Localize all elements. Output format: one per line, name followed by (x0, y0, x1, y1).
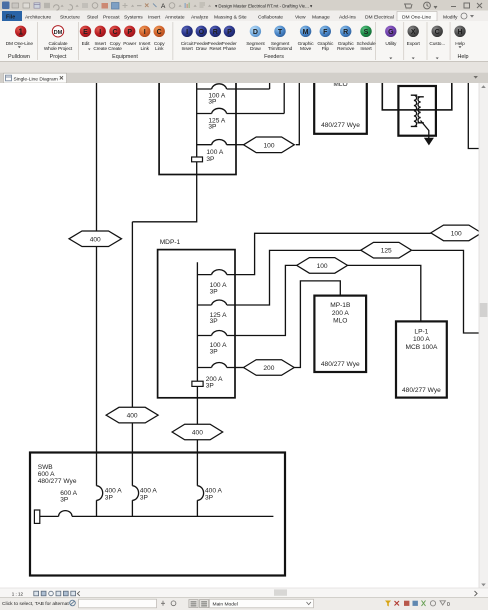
svg-text:G: G (388, 29, 394, 36)
svg-text:Move: Move (300, 46, 312, 52)
equipment box outer (top right, cut) (382, 78, 452, 110)
svg-text:Copy: Copy (110, 41, 121, 47)
svg-text:C: C (157, 29, 162, 36)
wire MDP-1 b1 to hexagon 100 top right (235, 233, 431, 274)
ribbon body (0, 21, 488, 62)
svg-text:DM One-Line: DM One-Line (402, 14, 431, 20)
svg-text:MCB 100A: MCB 100A (405, 344, 437, 351)
feeder hexagon 100 (H6) (431, 225, 482, 241)
transformer coils (411, 95, 417, 126)
svg-text:M: M (303, 29, 309, 36)
svg-text:Insert: Insert (95, 41, 107, 47)
svg-text:Main Model: Main Model (213, 601, 238, 607)
svg-text:I: I (186, 29, 188, 36)
labels SWB (38, 464, 223, 503)
labels MP-1B (0, 0, 1, 1)
svg-text:Massing & Site: Massing & Site (214, 14, 247, 20)
svg-text:3P: 3P (205, 495, 214, 502)
svg-text:Segment: Segment (246, 41, 265, 47)
svg-text:Reset: Reset (209, 46, 222, 52)
wire MDP-1 b2 to hexagon 125 (235, 250, 361, 305)
svg-text:Insert: Insert (360, 46, 372, 52)
panelboard MP-1B (314, 296, 366, 372)
breaker 200A 3P (MDP-1 b4) (197, 367, 235, 369)
svg-text:Steel: Steel (87, 14, 98, 20)
feeder hexagon 125 (H7) (361, 242, 412, 258)
bottom: view control bar + horizontal scrollbar (0, 588, 488, 597)
ribbon tab row (0, 11, 488, 22)
svg-text:P: P (227, 29, 232, 36)
svg-text:1 : 12: 1 : 12 (12, 592, 24, 597)
svg-text:I: I (99, 29, 101, 36)
wire: top panel bus down, over to SWB riser (132, 83, 196, 516)
breaker 100A 3P (MDP-1 b3) (197, 335, 235, 337)
breaker 100A 3P (top panel b1) (197, 88, 236, 90)
svg-text:100: 100 (451, 230, 462, 237)
utility service rectangle (34, 510, 39, 523)
panelboard LP-1 (396, 321, 447, 397)
svg-text:Trim/Extend: Trim/Extend (268, 46, 293, 52)
feeder hexagon 100 (H8) (244, 137, 295, 153)
svg-text:F: F (323, 29, 328, 36)
svg-text:Help: Help (455, 41, 465, 47)
svg-text:Analyze: Analyze (191, 14, 209, 20)
svg-text:Feeder: Feeder (208, 41, 223, 47)
svg-text:C: C (435, 29, 440, 36)
svg-text:Draw: Draw (196, 46, 207, 52)
svg-text:3P: 3P (60, 497, 69, 504)
svg-text:3P: 3P (105, 495, 114, 502)
svg-text:3P: 3P (210, 289, 219, 296)
svg-text:H: H (457, 29, 462, 36)
equipment box MLO (top, cut) (314, 78, 367, 134)
svg-text:Architecture: Architecture (25, 14, 51, 20)
breaker 600A 3P (SWB main) (59, 511, 72, 517)
svg-text:3P: 3P (208, 124, 217, 131)
svg-text:O: O (199, 29, 205, 36)
svg-text:Insert: Insert (181, 46, 193, 52)
feeder hexagon 200 (H4) (244, 360, 295, 376)
view tab bar (0, 73, 488, 83)
wire top right corner to edge (468, 83, 479, 149)
svg-text:3P: 3P (208, 99, 217, 106)
status bar (0, 597, 488, 610)
svg-text:Create: Create (108, 46, 122, 52)
svg-text:Circuit: Circuit (181, 41, 195, 47)
svg-text:Remove: Remove (337, 46, 355, 52)
svg-text:Add-Ins: Add-Ins (339, 14, 356, 20)
svg-text:I: I (144, 29, 146, 36)
breaker 100A 3P (top panel b3) (197, 144, 236, 146)
svg-text:Systems: Systems (124, 14, 143, 20)
panel top (unnamed, cut at top) (159, 78, 236, 175)
breaker labels: MDP-1 (206, 282, 227, 390)
svg-text:Graphic: Graphic (298, 41, 315, 47)
svg-text:D: D (253, 29, 258, 36)
svg-text:MP-1B: MP-1B (330, 302, 351, 309)
breaker 100A 3P (MDP-1 b1) (197, 274, 235, 276)
wire from hexagon 100 up (296, 83, 300, 145)
svg-text:Link: Link (141, 46, 150, 52)
feeder hexagon 400 (H3) (172, 424, 223, 440)
svg-text:Custo...: Custo... (429, 41, 445, 47)
svg-text:Export: Export (407, 41, 421, 47)
svg-text:400: 400 (192, 430, 203, 437)
title bar (0, 0, 488, 11)
svg-text:E: E (83, 29, 88, 36)
panel labels (8, 54, 468, 60)
svg-text:Phase: Phase (223, 46, 236, 52)
wire hexagon 125 to right edge (412, 250, 479, 333)
svg-text:X: X (411, 29, 416, 36)
right status icons (385, 601, 450, 608)
wire MDP-1 b4 to hexagon 200 (235, 367, 244, 369)
transformer secondary lead with arrow (421, 121, 429, 139)
main lug symbol (MDP-1) (192, 381, 203, 386)
svg-text:3P: 3P (140, 495, 149, 502)
svg-text:Insert: Insert (139, 41, 151, 47)
svg-text:T: T (278, 29, 283, 36)
svg-text:Calculate: Calculate (49, 41, 68, 47)
feeder hexagon 400 (H1) (69, 231, 122, 247)
svg-text:A: A (161, 3, 166, 10)
breaker 400A 3P (SWB d2) (132, 486, 138, 501)
wire b1 to riser up (236, 83, 270, 89)
svg-text:Project: Project (50, 54, 67, 60)
wire b3 to feeder hexagon (236, 144, 244, 146)
svg-text:480/277 Wye: 480/277 Wye (321, 122, 360, 129)
svg-text:Segment: Segment (271, 41, 290, 47)
wire b2 to riser up (236, 83, 284, 114)
wire MDP-1 b3 to hexagon 100 (235, 265, 297, 335)
feeder hexagon 400 (H2) (106, 407, 158, 423)
load arrow (transformer) (424, 138, 434, 146)
switchboard SWB (30, 453, 285, 576)
svg-text:Annotate: Annotate (165, 14, 185, 20)
svg-text:480/277 Wye: 480/277 Wye (38, 478, 77, 485)
svg-text:Edit: Edit (82, 41, 91, 47)
svg-text:C: C (112, 29, 117, 36)
svg-text:Graphic: Graphic (338, 41, 355, 47)
svg-text:S: S (364, 29, 369, 36)
svg-text:Create: Create (93, 46, 107, 52)
svg-text:Manage: Manage (312, 14, 330, 20)
svg-text:Graphic: Graphic (317, 41, 334, 47)
svg-text:Flip: Flip (322, 46, 330, 52)
SWB bus wire (40, 515, 274, 517)
svg-text:Single-Line Diagram: Single-Line Diagram (14, 76, 58, 82)
svg-text:Whole Project: Whole Project (44, 46, 73, 52)
svg-text:400: 400 (127, 413, 138, 420)
svg-text:Feeder: Feeder (222, 41, 237, 47)
svg-text:Modify: Modify (443, 14, 458, 20)
svg-text:3P: 3P (210, 318, 219, 325)
svg-text:Draw: Draw (250, 46, 261, 52)
svg-text:P: P (127, 29, 132, 36)
svg-text:▾ Design Master Electrical RT.: ▾ Design Master Electrical RT.rvt - Draf… (215, 3, 312, 8)
svg-text:400: 400 (90, 236, 101, 243)
svg-text:R: R (213, 29, 218, 36)
svg-text:480/277 Wye: 480/277 Wye (321, 361, 360, 368)
panel MDP-1 (158, 250, 235, 398)
svg-text:200 A: 200 A (332, 310, 349, 317)
svg-text:0: 0 (447, 602, 450, 608)
wire: MDP-1 bus down to SWB (196, 262, 198, 516)
breaker labels: top panel (206, 92, 225, 163)
svg-text:Feeders: Feeders (264, 54, 284, 60)
svg-text:Copy: Copy (154, 41, 165, 47)
svg-text:Utility: Utility (385, 41, 397, 47)
svg-text:125: 125 (381, 248, 392, 255)
svg-text:R: R (343, 29, 348, 36)
svg-text:View: View (295, 14, 306, 20)
feeder hexagon 100 (H5) (297, 258, 348, 274)
svg-text:Pulldown: Pulldown (8, 54, 30, 60)
svg-text:DM One-Line: DM One-Line (6, 41, 34, 47)
svg-text:100: 100 (263, 142, 274, 149)
svg-text:LP-1: LP-1 (414, 329, 428, 336)
svg-text:Collaborate: Collaborate (258, 14, 283, 20)
breaker 125A 3P (top panel b2) (197, 113, 236, 115)
svg-text:1: 1 (18, 27, 23, 36)
svg-text:Equipment: Equipment (112, 54, 138, 60)
svg-text:Help: Help (457, 54, 468, 60)
svg-text:Insert: Insert (148, 14, 161, 20)
breaker 400A 3P (SWB d3) (197, 486, 203, 501)
svg-text:480/277 Wye: 480/277 Wye (402, 387, 441, 394)
svg-text:File: File (6, 15, 15, 21)
svg-text:Feeder: Feeder (194, 41, 209, 47)
vertical scrollbar (479, 83, 488, 588)
svg-text:100 A: 100 A (413, 336, 430, 343)
wire hexagon 200 to MP-1B (294, 281, 340, 368)
svg-text:MLO: MLO (333, 318, 347, 325)
svg-text:Click to select, TAB for alter: Click to select, TAB for alternat (2, 601, 69, 607)
transformer T enclosure (398, 86, 436, 136)
strip below ribbon (0, 62, 488, 73)
svg-text:Precast: Precast (103, 14, 120, 20)
wire hexagon 100 to LP-1 (348, 265, 421, 321)
svg-text:Power: Power (123, 41, 137, 47)
breaker 125A 3P (MDP-1 b2) (197, 304, 235, 306)
main lug symbol (top panel) (192, 157, 203, 162)
svg-text:100: 100 (317, 263, 328, 270)
svg-text:3P: 3P (206, 156, 215, 163)
svg-text:MDP-1: MDP-1 (160, 239, 181, 246)
svg-text:Structure: Structure (60, 14, 80, 20)
svg-text:DM Electrical: DM Electrical (365, 14, 394, 20)
wire: SWB breaker2 feeder riser (long left vertical) (96, 83, 98, 516)
svg-text:3P: 3P (210, 349, 219, 356)
svg-text:Schedule: Schedule (356, 41, 375, 47)
breaker 400A 3P (SWB d1) (97, 486, 103, 501)
ribbon button texts (6, 41, 465, 52)
svg-text:200: 200 (263, 365, 274, 372)
svg-text:Link: Link (155, 46, 164, 52)
svg-text:DM: DM (54, 30, 63, 36)
ribbon icons: circles with letters (15, 26, 466, 37)
svg-text:3P: 3P (206, 383, 215, 390)
